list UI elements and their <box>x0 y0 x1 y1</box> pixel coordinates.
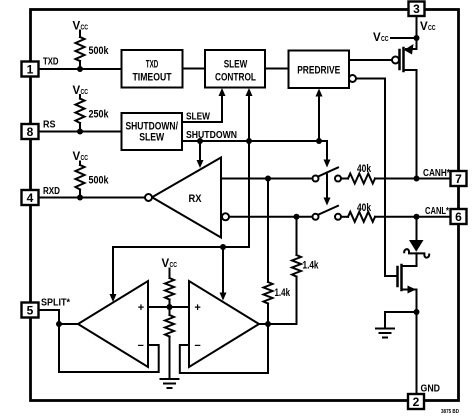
resistor R 500k (TXD pullup) <box>76 31 85 70</box>
wire CANL row <box>229 216 313 218</box>
svg-text:CANH*: CANH* <box>423 168 450 179</box>
pin 5 SPLIT <box>22 303 39 318</box>
wire A1 feedback <box>59 324 159 372</box>
svg-text:40k: 40k <box>357 202 372 214</box>
svg-text:7: 7 <box>455 172 462 186</box>
svg-text:CC: CC <box>81 153 89 162</box>
svg-text:SPLIT*: SPLIT* <box>41 298 70 309</box>
ground (NMOS source) <box>376 329 394 338</box>
wire disable arrow to op-amp A2 <box>220 247 227 301</box>
power VCC (TXD pullup) <box>73 20 89 32</box>
wire SPLIT pin lead <box>39 310 60 324</box>
transistor Q2 NMOS <box>398 265 417 312</box>
svg-text:CC: CC <box>381 34 389 43</box>
wire SHUTDOWN bus <box>182 140 327 142</box>
svg-text:CC: CC <box>428 23 436 32</box>
pin 8 RS <box>22 124 39 139</box>
wire TXD row <box>39 68 122 70</box>
wire 1.4k CANL leg <box>268 217 301 324</box>
resistor divider upper <box>165 269 174 308</box>
block SLEW CONTROL <box>205 50 265 88</box>
wire SHUTDOWN to switch 1 arrow <box>319 141 331 168</box>
wire A1 noninverting input <box>148 306 170 308</box>
diode D1 (schottky to CANL) <box>402 217 430 266</box>
resistor R 250k (RS pullup) <box>76 95 85 132</box>
block TXD TIMEOUT <box>122 50 183 88</box>
svg-text:1.4k: 1.4k <box>275 287 291 299</box>
node RS pullup junction <box>77 129 83 135</box>
power VCC (divider) <box>162 258 178 270</box>
svg-text:V: V <box>420 21 428 33</box>
svg-text:SLEW: SLEW <box>139 132 165 144</box>
wire RS row <box>39 131 122 133</box>
wire RX inverting input bubble <box>222 213 229 220</box>
node disable branch <box>220 244 226 250</box>
svg-text:PREDRIVE: PREDRIVE <box>297 64 340 76</box>
resistor R 40k (CANH) <box>341 174 451 184</box>
block SHUTDOWN/SLEW <box>122 113 183 150</box>
wire PREDRIVE low-side output <box>349 75 397 276</box>
wire SLEW CONTROL to PREDRIVE <box>265 68 289 70</box>
svg-text:−: − <box>137 340 143 352</box>
node RXD pullup junction <box>77 195 83 201</box>
svg-text:500k: 500k <box>89 175 110 187</box>
comparator RX <box>152 158 221 238</box>
wire source to GND pin <box>416 312 418 394</box>
wire RX output bubble <box>145 194 152 201</box>
wire VCC label lead <box>391 37 417 39</box>
node SHUTDOWN branch at x249 <box>246 138 252 144</box>
node SHUTDOWN branch at x319 <box>316 138 322 144</box>
svg-text:CC: CC <box>81 22 89 31</box>
node A2 output junction <box>265 321 271 327</box>
pin 4 RXD <box>22 190 39 205</box>
svg-text:CANL*: CANL* <box>425 206 449 217</box>
svg-text:6: 6 <box>455 210 462 224</box>
svg-text:1: 1 <box>27 62 34 76</box>
wire SHUTDOWN up to PREDRIVE <box>316 89 323 142</box>
svg-text:CC: CC <box>81 87 89 96</box>
svg-text:1.4k: 1.4k <box>303 260 320 272</box>
wire A1 output <box>59 323 78 325</box>
pin 6 CANL <box>451 209 467 224</box>
svg-text:TIMEOUT: TIMEOUT <box>133 71 172 83</box>
op-amp A2 (SPLIT buffer right) <box>189 281 259 367</box>
resistor R 40k (CANL) <box>341 212 451 222</box>
node CANL to 1.4k <box>294 214 300 220</box>
svg-text:+: + <box>138 302 144 314</box>
wire A2 noninverting input <box>170 306 190 308</box>
wire VCC rail from pin 3 <box>416 16 418 49</box>
svg-text:RX: RX <box>189 193 203 205</box>
svg-text:RXD: RXD <box>43 186 60 197</box>
svg-text:RS: RS <box>43 120 56 131</box>
svg-text:CONTROL: CONTROL <box>215 71 256 83</box>
node SPLIT junction <box>56 321 62 327</box>
node TXD pullup junction <box>77 66 83 72</box>
svg-text:V: V <box>73 151 81 163</box>
pin 1 TXD <box>22 62 39 77</box>
switch S2 (CANL) <box>313 206 342 220</box>
wire 1.4k CANH leg <box>264 179 273 325</box>
power VCC (RS pullup) <box>73 85 89 97</box>
node CANH to 1.4k <box>265 176 271 182</box>
svg-text:SHUTDOWN: SHUTDOWN <box>186 130 237 141</box>
node CANH drain junction <box>414 176 420 182</box>
wire CANH row <box>221 178 313 180</box>
svg-text:4: 4 <box>27 191 34 205</box>
wire SHUTDOWN to RX disable arrow <box>197 141 204 168</box>
resistor R 500k (RXD pullup) <box>76 162 85 198</box>
svg-text:8: 8 <box>27 125 34 139</box>
wire A2 feedback <box>180 324 268 373</box>
svg-text:CC: CC <box>170 260 178 269</box>
node CANL diode junction <box>414 214 420 220</box>
svg-text:SLEW: SLEW <box>186 111 210 122</box>
svg-text:TXD: TXD <box>43 57 59 68</box>
wire SHUTDOWN down to op-amps <box>248 141 250 247</box>
power VCC (pin3) <box>420 21 436 33</box>
wire source to ground <box>385 312 417 328</box>
svg-text:500k: 500k <box>89 45 110 57</box>
svg-text:V: V <box>73 85 81 97</box>
wire op-amp disable bus <box>113 246 249 248</box>
wire A2 output <box>259 323 268 325</box>
switch S1 (CANH) <box>313 168 342 182</box>
svg-text:40k: 40k <box>357 163 372 175</box>
wire RXD row <box>39 197 145 199</box>
node SHUTDOWN to RX <box>197 138 203 144</box>
node NMOS source junction <box>414 309 420 315</box>
node divider midpoint <box>167 304 173 310</box>
svg-text:3: 3 <box>413 2 420 16</box>
pin 7 CANH <box>451 171 467 186</box>
pin 2 GND <box>408 394 424 409</box>
pin 3 VCC <box>409 2 425 17</box>
svg-text:SLEW: SLEW <box>224 59 248 71</box>
svg-text:+: + <box>194 302 200 314</box>
block PREDRIVE <box>289 51 350 89</box>
wire PREDRIVE gate drive (top) <box>349 59 392 61</box>
svg-text:TXD: TXD <box>146 59 159 71</box>
wire TXD TIMEOUT to SLEW CONTROL <box>183 68 206 70</box>
ground (divider) <box>161 379 179 388</box>
svg-text:3875 BD: 3875 BD <box>441 409 459 415</box>
svg-text:V: V <box>73 20 81 32</box>
svg-text:2: 2 <box>413 395 420 409</box>
svg-text:V: V <box>373 32 381 44</box>
power VCC (RXD pullup) <box>73 151 89 163</box>
node VCC rail junction <box>414 35 420 41</box>
power VCC (PMOS source) <box>373 32 389 44</box>
transistor Q1 PMOS <box>392 44 417 179</box>
wire SLEW signal <box>182 88 226 122</box>
svg-text:−: − <box>194 340 200 352</box>
wire disable arrow to op-amp A1 <box>110 247 117 302</box>
resistor divider lower <box>165 307 174 379</box>
wire switch 1 to switch 2 arrow <box>324 175 331 206</box>
wire SHUTDOWN up to SLEW CONTROL <box>246 88 253 141</box>
svg-text:5: 5 <box>27 303 34 317</box>
svg-text:250k: 250k <box>89 109 110 121</box>
op-amp A1 (SPLIT buffer left) <box>78 281 148 367</box>
svg-text:V: V <box>162 258 170 270</box>
